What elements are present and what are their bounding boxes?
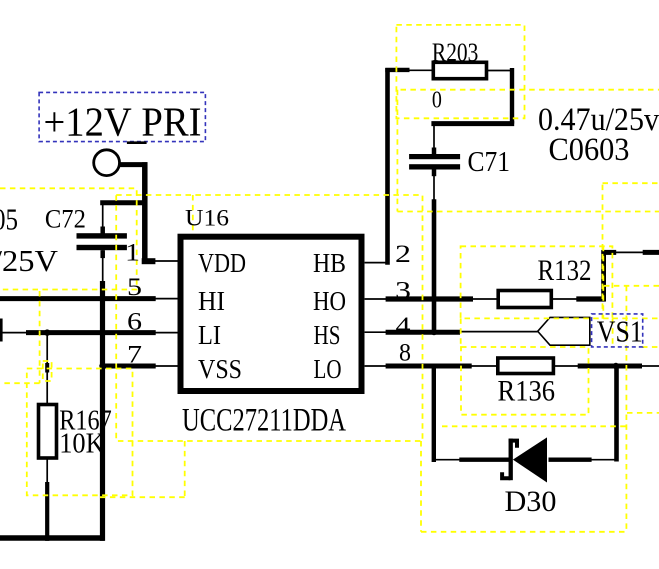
selection box R132 [461,246,613,318]
svg-text:VDD: VDD [198,248,246,278]
capacitor C72 bottom lead [100,250,105,258]
wire big vertical VSS/GND [100,281,105,541]
wire pin4 thin from chip [365,331,386,333]
selection corner right edge mid [604,286,659,532]
wire pin6 thin from left edge [0,332,27,334]
svg-text:R136: R136 [498,375,556,408]
wire pin1 stub [142,258,156,264]
svg-text:8: 8 [399,340,411,367]
selection tiny box R167 top pin [43,361,52,381]
selection box VS1 [592,314,643,347]
svg-text:5: 5 [127,274,142,301]
svg-text:HB: HB [313,248,346,278]
net flag VS1 outline [538,317,590,345]
junction pin8 right [613,363,619,369]
svg-text:4: 4 [396,313,412,340]
svg-text:R132: R132 [538,254,592,287]
selection line right edge at R136 top level [642,346,659,348]
svg-text:HO: HO [313,286,346,316]
selection box big U16 area [116,195,422,441]
capacitor C71 top lead [433,125,435,154]
power port circle +12V_PRI [94,150,120,176]
svg-text:UCC27211DDA: UCC27211DDA [182,403,346,439]
svg-text:D30: D30 [505,485,557,518]
diode D30 schottky cathode bar [509,439,513,481]
selection box C71 bottom edge [397,211,659,213]
IC U16 body [181,237,362,391]
selection line long horizontal right [401,89,659,91]
svg-text:VSS: VSS [198,354,242,384]
svg-text:HI: HI [198,286,225,316]
wire R203 left thin lead [409,69,433,71]
selection box +12V_PRI [39,92,205,141]
wire pin6 LI [26,330,156,335]
selection line right edge lower [627,412,659,414]
resistor R167 bottom lead [46,458,48,482]
wire +12V horizontal to C72 top [100,200,147,205]
selection outline D30 region [421,426,626,532]
selection box small left edge [0,291,40,383]
svg-text:10K: 10K [59,427,105,459]
wire D30 left thin [432,459,460,461]
resistor R167 top lead [46,333,48,405]
svg-text:2: 2 [395,241,411,268]
selection corner right upper [603,183,659,319]
selection box R167 [27,369,133,496]
wire pin8 thin to right edge [641,365,659,367]
resistor R167 body [39,405,57,459]
wire pin2 vertical up to R203 [385,68,390,265]
junction R167 top [44,329,50,335]
wire pin4 HS thick [386,330,460,335]
wire R136 right thin [553,365,578,367]
wire D30 right thick [549,458,592,462]
capacitor C72 top plate [77,233,127,238]
wire D30 right thin [591,459,618,461]
resistor R203 body [433,62,486,78]
net label underscore glyph [127,141,147,144]
svg-text:+12V PRI: +12V PRI [44,99,202,145]
resistor R132 body [498,291,551,308]
wire pin5 HI from left edge [0,296,156,301]
svg-text:/25V: /25V [0,243,59,278]
wire pin3 HO thick [386,296,473,301]
wire vertical C71 to pin4 [432,199,437,334]
capacitor C72 bottom plate [77,245,127,250]
resistor R136 body [498,358,554,374]
selection box C71 left edge [396,90,398,212]
wire R132 right thin [551,298,577,300]
wire pin8 LO thick [386,364,472,369]
svg-text:6: 6 [127,309,142,336]
selection notch right of R167 [100,441,185,497]
wire pin1 thin to chip [155,260,178,262]
wire pin3 thin from chip [365,298,386,300]
selection box C72 area [0,188,137,289]
wire thick at right edge top [643,250,659,255]
svg-text:VS1: VS1 [597,314,643,349]
wire R136 right thick [578,364,642,369]
junction pin7 at vertical [99,363,105,369]
wire pin8 thin from chip [365,365,386,367]
selection vertical on R132 right wire [602,246,604,318]
svg-text:3: 3 [395,278,411,305]
selection vertical hidden behind chip [192,195,194,330]
selection box R203 [396,25,524,118]
wire bottom GND rail [0,535,104,541]
wire vertical up from R132 net [601,250,606,301]
selection vertical R136 box left extension [460,318,462,347]
svg-text:LI: LI [198,320,221,350]
selection line R132 box bottom extension [612,317,658,319]
wire pin6 thin to chip [155,332,178,334]
wire D30 left thick [459,458,510,462]
wire top stub right of vertical [602,250,617,255]
wire pin2 thin from chip [365,262,390,264]
capacitor C72 top lead [102,204,104,234]
wire from port circle to vertical [120,162,148,167]
svg-text:1: 1 [125,240,140,267]
wire pin7 VSS [100,364,156,369]
left edge partial glyph [0,319,3,342]
diode D30 triangle [513,437,547,482]
svg-text:R203: R203 [432,38,479,67]
wire thin toward right edge [616,251,644,253]
wire pin5 thin to chip [155,298,178,300]
junction pin4 vertical [431,329,437,335]
wire pin3 thin to R132 [472,298,498,300]
selection vertical R132 box right extension down [612,318,614,347]
svg-text:LO: LO [314,354,342,384]
capacitor C71 top plate [409,154,460,159]
svg-text:C71: C71 [468,146,511,178]
wire vertical from port down to pin1 [142,162,148,261]
svg-text:C0603: C0603 [549,132,630,168]
wire vertical pin8 down to D30 [432,366,436,462]
svg-text:05: 05 [0,201,18,236]
wire R132 right thick [576,296,605,301]
svg-text:C72: C72 [45,205,86,234]
selection box R136 [461,347,589,415]
capacitor C71 bottom plate [409,164,460,169]
capacitor C71 bottom lead [432,170,437,177]
wire R203 right vertical [510,68,514,124]
wire vertical D30 right up to pin8 [614,366,619,462]
svg-text:0: 0 [432,87,442,113]
svg-text:HS: HS [314,320,341,350]
svg-text:U16: U16 [185,206,229,231]
wire R203 left stub [385,68,409,72]
wire pin8 thin to R136 [471,365,498,367]
wire pin4 thin to VS1 flag [459,331,538,333]
wire horizontal to C71 top [431,121,514,126]
wire R203 right thin lead [487,70,513,72]
wire pin7 thin to chip [155,365,178,367]
svg-text:7: 7 [127,342,142,369]
